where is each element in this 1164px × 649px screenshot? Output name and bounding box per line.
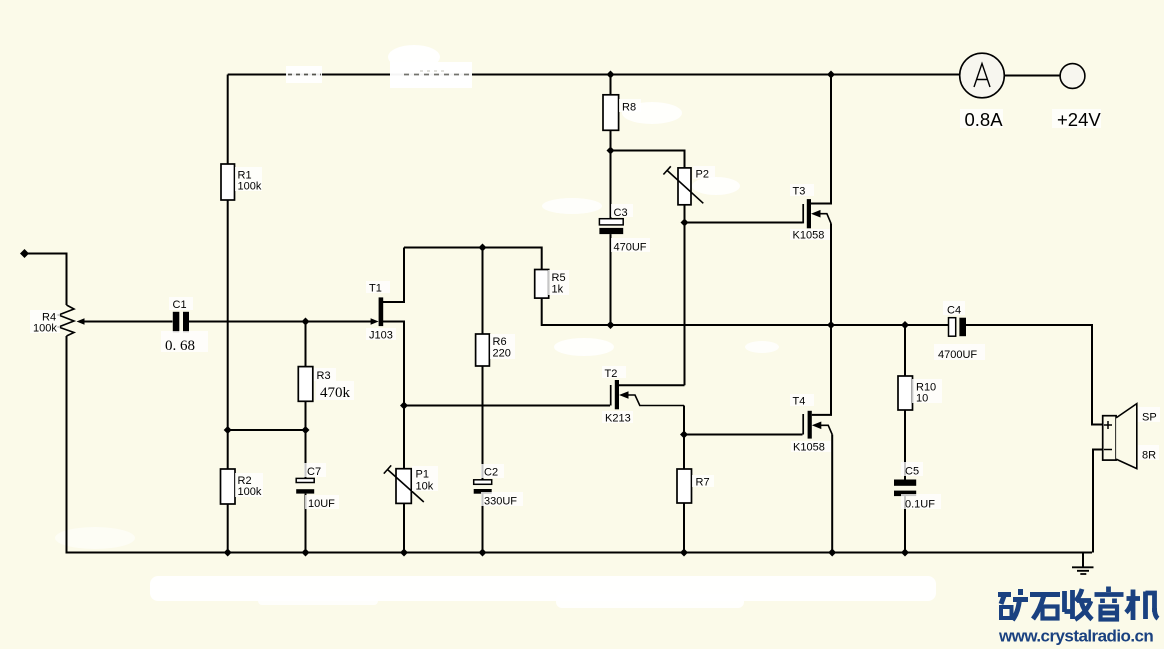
transistor T3 gate bar — [802, 204, 804, 223]
white-out small patch near x760 y347 — [745, 341, 779, 353]
watermark char shi — [1030, 595, 1060, 620]
svg-text:100k: 100k — [33, 323, 57, 335]
svg-text:220: 220 — [493, 348, 511, 360]
svg-text:C7: C7 — [307, 466, 321, 478]
svg-text:T4: T4 — [793, 396, 806, 408]
white-out patch right of P2 — [692, 177, 740, 195]
node output row / R10 — [901, 321, 909, 329]
wire T4 gate row — [684, 434, 803, 436]
watermark char shou — [1065, 589, 1093, 620]
transistor T2 source arrow — [619, 391, 629, 399]
wire T1 source lead — [383, 322, 404, 406]
node T2 source / T4 gate / R7 — [680, 431, 688, 439]
white-out patch over top rail (left) — [286, 66, 322, 83]
potentiometer R4 wiper arrow — [77, 318, 85, 325]
transistor T3 source bent lead — [820, 214, 832, 224]
wire C2 bottom to rail — [482, 494, 484, 553]
wire T3 source to output row — [830, 223, 832, 325]
white band above bottom watermark — [150, 576, 936, 601]
potentiometer P1 arrow — [384, 465, 424, 502]
node rail / C5 — [901, 549, 909, 557]
wire R7 bottom to rail — [683, 503, 685, 553]
transistor T1 gate arrow — [371, 318, 379, 325]
svg-text:100k: 100k — [238, 486, 262, 498]
resistor R8 — [603, 95, 619, 131]
wire R1 branch vertical — [227, 75, 229, 165]
wire node to R7 top — [683, 435, 685, 470]
potentiometer P2 arrow — [663, 166, 703, 203]
wire output row C4 to speaker — [966, 325, 1103, 425]
transistor T4 body — [808, 411, 812, 439]
ghost dashes on faded rail segment right — [404, 74, 470, 76]
wire P1 bottom to rail — [403, 503, 405, 552]
svg-text:330UF: 330UF — [484, 496, 517, 508]
resistor R5 — [535, 270, 549, 299]
wire C5 bottom to rail — [904, 496, 906, 552]
svg-text:0.1UF: 0.1UF — [905, 499, 935, 511]
speaker body — [1103, 416, 1116, 460]
wire R6 top tap — [482, 248, 484, 335]
wire connector R2 string to C7 string — [228, 429, 306, 431]
wire T3 gate node down to T2 drain — [684, 223, 686, 386]
svg-text:470UF: 470UF — [614, 242, 647, 254]
svg-text:P1: P1 — [416, 469, 429, 481]
ammeter circle — [960, 53, 1005, 98]
speaker minus sign — [1104, 449, 1112, 451]
svg-text:R7: R7 — [696, 477, 710, 489]
node rail / C2 — [479, 549, 487, 557]
svg-text:C1: C1 — [173, 299, 187, 311]
ghost dashes on faded rail segment left — [288, 74, 321, 76]
svg-text:10: 10 — [916, 393, 928, 405]
wire P2 bottom to T3 gate node — [684, 205, 686, 223]
svg-text:10k: 10k — [416, 481, 434, 493]
svg-text:10UF: 10UF — [308, 498, 335, 510]
white-out patch bottom left — [55, 527, 135, 549]
node signal row / R3 — [302, 318, 310, 326]
transistor T1 body — [379, 297, 384, 326]
svg-text:K213: K213 — [605, 413, 631, 425]
ground — [1072, 567, 1094, 574]
svg-text:P2: P2 — [696, 169, 709, 181]
wire R4 bottom to bottom rail — [67, 336, 1093, 553]
capacitor C3 plates — [599, 219, 623, 225]
wire C3 bottom to output row — [610, 234, 612, 325]
wire R10 top tap — [904, 325, 906, 376]
white-out patch over top rail (right) — [390, 62, 472, 88]
svg-text:+24V: +24V — [1057, 109, 1101, 130]
transistor T4 source bent lead — [820, 425, 832, 434]
svg-text:C2: C2 — [484, 467, 498, 479]
wire speaker minus to rail — [1093, 450, 1103, 553]
input terminal — [20, 249, 29, 258]
wire input stub — [24, 254, 67, 306]
node row247 / R6 — [479, 244, 487, 252]
potentiometer P1 body — [396, 469, 411, 504]
svg-text:R6: R6 — [493, 336, 507, 348]
transistor T4 gate bar — [802, 414, 804, 435]
svg-text:J103: J103 — [369, 330, 393, 342]
resistor R7 — [677, 469, 692, 503]
svg-text:C4: C4 — [947, 305, 961, 317]
svg-text:SP: SP — [1142, 412, 1157, 424]
wire row 247 to R5 — [404, 248, 542, 270]
wire signal row C1 to T1 gate — [189, 321, 371, 323]
capacitor C4 plates — [949, 318, 956, 337]
svg-text:8R: 8R — [1142, 450, 1156, 462]
wire R3 bottom to C7 — [305, 401, 307, 478]
transistor T4 source arrow — [812, 422, 822, 430]
wire T3 gate row — [685, 222, 803, 224]
resistor R6 — [476, 334, 490, 366]
wire T3 drain to top rail — [811, 75, 831, 204]
wire top rail — [228, 74, 960, 76]
resistor R2 — [221, 469, 236, 504]
wire R3 top to signal row — [305, 322, 307, 367]
svg-text:R3: R3 — [317, 370, 331, 382]
svg-text:R5: R5 — [552, 272, 566, 284]
svg-text:R8: R8 — [622, 102, 636, 114]
svg-text:K1058: K1058 — [793, 230, 825, 242]
white-out patch right of R5 — [554, 338, 614, 356]
svg-text:4700UF: 4700UF — [938, 349, 977, 361]
wire T2 drain lead — [619, 384, 685, 386]
watermark char ji — [1126, 590, 1158, 621]
node C7 string / connector — [302, 426, 310, 434]
svg-text:K1058: K1058 — [793, 442, 825, 454]
wire T1 drain lead — [383, 248, 404, 303]
transistor T3 source arrow — [811, 210, 821, 218]
node rail / P1 — [400, 549, 408, 557]
transistor T2 source bent lead — [628, 395, 685, 406]
wire R2 bottom to rail — [227, 504, 229, 553]
node output row / T3 source rail — [827, 321, 835, 329]
svg-text:T2: T2 — [605, 368, 618, 380]
node R8 bottom / C3 / P2 — [607, 147, 615, 155]
transistor T3 body — [807, 199, 811, 228]
svg-text:T1: T1 — [369, 283, 382, 295]
svg-text:C5: C5 — [905, 466, 919, 478]
+24V terminal circle — [1060, 64, 1085, 89]
capacitor C7 plates — [296, 478, 314, 482]
svg-text:0. 68: 0. 68 — [165, 338, 195, 354]
wire ammeter to +24V terminal — [1005, 75, 1061, 77]
wire T4 source down to rail — [831, 435, 833, 553]
speaker plus sign — [1104, 421, 1112, 429]
node rail / T4 source — [828, 549, 836, 557]
wire R6 bottom to C2 — [482, 366, 484, 480]
resistor R10 — [898, 376, 913, 410]
resistor R3 — [298, 367, 313, 402]
wire T2 source down to node — [683, 406, 685, 435]
svg-text:0.8A: 0.8A — [965, 109, 1004, 130]
wire R8 top — [610, 75, 612, 95]
watermark char kuang — [998, 589, 1028, 620]
ammeter A glyph — [974, 64, 990, 88]
svg-text:1k: 1k — [552, 284, 564, 296]
node T1 source / P1 / T2 gate — [400, 402, 408, 410]
node rail / C7 — [302, 549, 310, 557]
wire T2 gate row — [404, 405, 610, 407]
node top rail / R8 — [607, 71, 615, 79]
potentiometer P2 body — [678, 168, 691, 205]
svg-text:100k: 100k — [238, 181, 262, 193]
svg-text:470k: 470k — [320, 385, 351, 401]
wire output row down to T4 drain — [812, 325, 831, 415]
wire R10 bottom to C5 — [904, 410, 906, 480]
svg-text:www.crystalradio.cn: www.crystalradio.cn — [998, 627, 1153, 646]
wire node to P2 top — [611, 151, 685, 168]
wire ground stub — [1082, 553, 1084, 568]
speaker cone — [1116, 404, 1137, 469]
svg-text:T3: T3 — [793, 186, 806, 198]
transistor T2 body — [615, 380, 619, 409]
wire R1 bottom to R2 top — [227, 200, 229, 469]
white-out patch left of C3 label — [542, 198, 602, 214]
wire R5 bottom to output row — [542, 298, 949, 325]
wire P1 top — [403, 406, 405, 469]
node R2 string / connector — [224, 426, 232, 434]
node top rail / T3 drain — [827, 71, 835, 79]
potentiometer R4 zigzag — [59, 305, 75, 336]
watermark char yin — [1095, 587, 1124, 620]
node P2 bottom / T3 gate — [681, 219, 689, 227]
wire C7 bottom to rail — [305, 494, 307, 553]
node rail / R7 — [680, 549, 688, 557]
transistor T2 gate bar — [610, 385, 612, 406]
wire R8 bottom to node — [610, 130, 612, 150]
node rail / R2 — [224, 549, 232, 557]
svg-text:C3: C3 — [614, 207, 628, 219]
wire node to C3 top — [610, 151, 612, 219]
capacitor C5 plates — [894, 480, 916, 486]
wire signal row C1 left — [84, 321, 173, 323]
capacitor C2 plates — [474, 480, 492, 485]
node output row / C3 — [607, 321, 615, 329]
capacitor C1 plates — [173, 312, 180, 333]
white-out patch right of R8 — [622, 102, 682, 124]
resistor R1 — [221, 164, 235, 200]
